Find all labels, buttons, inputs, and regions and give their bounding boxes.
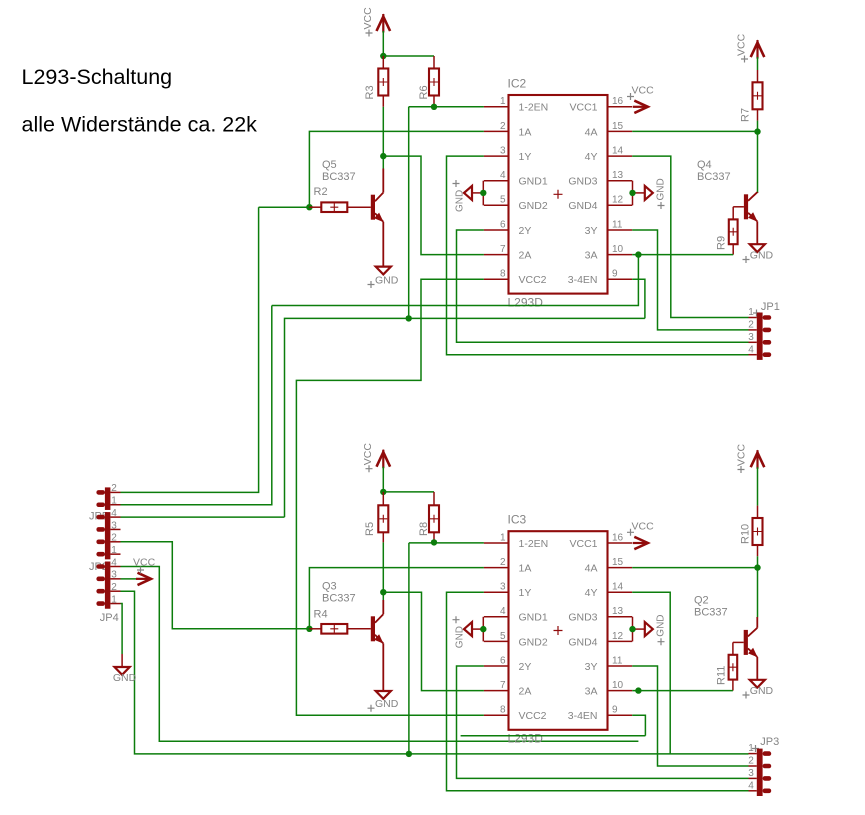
svg-text:11: 11 [612, 219, 623, 230]
svg-text:1: 1 [111, 594, 117, 605]
svg-text:R6: R6 [418, 85, 430, 99]
wire JP4.4 to 3A (IC3) [121, 567, 639, 742]
svg-text:4: 4 [748, 344, 754, 355]
svg-text:3: 3 [500, 582, 506, 593]
svg-text:3: 3 [748, 768, 754, 779]
power flag VCC (JP4.3) [133, 557, 156, 586]
wire [382, 107, 384, 156]
svg-text:1: 1 [111, 496, 117, 507]
wire 3-4EN [632, 279, 645, 318]
svg-text:L293D: L293D [508, 732, 544, 746]
ground (Q4 emitter) [743, 244, 774, 263]
svg-text:1Y: 1Y [519, 587, 532, 599]
wire [272, 255, 639, 306]
svg-text:2: 2 [748, 320, 754, 331]
svg-text:3: 3 [500, 146, 506, 157]
svg-text:12: 12 [612, 195, 624, 206]
resistor R3 [364, 56, 388, 107]
svg-text:VCC: VCC [362, 443, 374, 466]
junction [306, 626, 312, 632]
wire [382, 592, 384, 600]
wire JP2.4 to enable [121, 516, 285, 518]
svg-text:Q2: Q2 [694, 595, 709, 607]
svg-text:L293-Schaltung: L293-Schaltung [22, 65, 173, 89]
transistor Q5 [322, 159, 384, 267]
svg-text:4: 4 [111, 508, 117, 519]
svg-text:5: 5 [500, 631, 506, 642]
junction [380, 589, 386, 595]
svg-text:GND: GND [455, 626, 466, 648]
svg-text:1-2EN: 1-2EN [519, 102, 549, 114]
junction [635, 687, 641, 693]
resistor R4 [309, 609, 370, 634]
svg-text:R7: R7 [739, 108, 751, 122]
svg-text:2: 2 [500, 121, 506, 132]
junction [406, 751, 412, 757]
svg-text:GND3: GND3 [568, 612, 597, 624]
wire [408, 107, 410, 319]
ground bracket IC2 pins 12-13 [629, 178, 666, 209]
wire JP5.2 to R2 node [121, 207, 259, 492]
svg-text:GND: GND [455, 190, 466, 212]
wire 3Y [632, 230, 748, 330]
junction [754, 128, 760, 134]
wire 1Y [447, 592, 749, 791]
svg-text:BC337: BC337 [694, 607, 728, 619]
svg-text:GND: GND [656, 614, 667, 636]
junction [431, 539, 437, 545]
svg-text:GND2: GND2 [519, 200, 548, 212]
svg-text:R3: R3 [364, 85, 376, 99]
wire 4Y [632, 156, 748, 317]
svg-text:GND4: GND4 [568, 636, 597, 648]
svg-text:2: 2 [748, 756, 754, 767]
svg-text:GND4: GND4 [568, 200, 597, 212]
power flag VCC (IC2 pin16) [627, 85, 654, 114]
svg-text:BC337: BC337 [697, 171, 731, 183]
wire [259, 206, 310, 208]
transistor Q4 [697, 159, 758, 244]
svg-text:JP4: JP4 [100, 612, 119, 624]
wire [382, 156, 384, 168]
wire collector to 2A [383, 592, 484, 690]
junction [406, 315, 412, 321]
svg-text:JP1: JP1 [761, 301, 780, 313]
wire [383, 55, 434, 57]
wire [382, 467, 384, 492]
pin header JP5 [96, 483, 120, 510]
svg-text:alle Widerstände ca. 22k: alle Widerstände ca. 22k [22, 113, 258, 137]
svg-text:11: 11 [612, 655, 623, 666]
ground bracket IC3 pins 4-5 [453, 616, 487, 648]
wire 1Y [447, 156, 749, 355]
svg-text:15: 15 [612, 121, 624, 132]
svg-text:3: 3 [748, 332, 754, 343]
power flag VCC (mid right) [736, 444, 765, 473]
resistor R10 [739, 506, 762, 557]
svg-text:L293D: L293D [508, 296, 544, 310]
svg-text:1-2EN: 1-2EN [519, 538, 549, 550]
wire [409, 106, 484, 108]
resistor R2 [309, 186, 370, 212]
svg-text:VCC1: VCC1 [569, 538, 597, 550]
pin header JP4 [96, 557, 120, 608]
svg-text:2: 2 [111, 533, 117, 544]
svg-text:VCC: VCC [736, 444, 748, 467]
svg-text:VCC: VCC [133, 557, 156, 569]
junction [306, 204, 312, 210]
junction [380, 53, 386, 59]
svg-text:JP3: JP3 [760, 736, 779, 748]
svg-text:3Y: 3Y [585, 225, 598, 237]
svg-text:VCC: VCC [632, 85, 655, 97]
power flag VCC (IC3 pin16) [627, 521, 654, 550]
svg-text:R11: R11 [716, 666, 728, 685]
svg-text:1Y: 1Y [519, 151, 532, 163]
svg-text:4: 4 [111, 557, 117, 568]
svg-text:3: 3 [111, 520, 117, 531]
junction [431, 104, 437, 110]
svg-text:VCC2: VCC2 [519, 710, 547, 722]
svg-text:4: 4 [748, 780, 754, 791]
svg-text:IC3: IC3 [508, 513, 527, 527]
wire 3Y [632, 666, 748, 766]
svg-text:BC337: BC337 [322, 171, 356, 183]
wire JP4.2 to enable (IC3) [121, 591, 749, 754]
svg-text:GND: GND [656, 178, 667, 200]
svg-text:4A: 4A [585, 126, 598, 138]
svg-text:1: 1 [748, 743, 754, 754]
svg-text:GND: GND [375, 274, 399, 286]
wire 3A [632, 254, 733, 256]
pin header JP2 [96, 508, 120, 559]
svg-text:1A: 1A [519, 126, 532, 138]
svg-text:VCC: VCC [736, 33, 748, 56]
svg-text:4Y: 4Y [585, 151, 598, 163]
wire [757, 556, 759, 567]
ground bracket IC2 pins 4-5 [453, 180, 487, 212]
svg-text:4: 4 [500, 170, 506, 181]
svg-text:1: 1 [748, 307, 754, 318]
svg-text:7: 7 [500, 680, 506, 691]
svg-text:2A: 2A [519, 686, 532, 698]
wire enable bus [285, 318, 645, 517]
svg-text:IC2: IC2 [508, 77, 527, 91]
wire JP5.1 to 3A [121, 306, 272, 505]
wire collector to 2A [383, 156, 484, 255]
resistor R5 [364, 492, 388, 543]
power flag VCC (mid left) [362, 443, 390, 473]
resistor R6 [418, 56, 439, 107]
wire [382, 31, 384, 56]
wire JP4.3 VCC [121, 578, 138, 580]
svg-text:10: 10 [612, 680, 624, 691]
svg-text:R4: R4 [314, 609, 328, 621]
wire [757, 57, 759, 70]
svg-text:4A: 4A [585, 563, 598, 575]
ground [368, 691, 399, 712]
svg-text:GND1: GND1 [519, 176, 548, 188]
svg-text:Q5: Q5 [322, 159, 337, 171]
junction [380, 153, 386, 159]
resistor R11 [716, 642, 744, 690]
svg-text:4: 4 [500, 606, 506, 617]
svg-text:1: 1 [500, 96, 506, 107]
svg-text:3A: 3A [585, 686, 598, 698]
junction [635, 251, 641, 257]
svg-text:R10: R10 [739, 524, 751, 544]
transistor Q3 [322, 581, 384, 692]
wire [757, 467, 759, 505]
svg-text:5: 5 [500, 195, 506, 206]
svg-text:2: 2 [111, 483, 117, 494]
ground (JP4.1) [0, 0, 137, 684]
svg-text:BC337: BC337 [322, 593, 356, 605]
IC op-amp U IC2 [484, 77, 632, 310]
svg-text:R2: R2 [314, 186, 328, 198]
svg-text:GND: GND [750, 685, 774, 697]
wire [409, 542, 484, 544]
svg-text:15: 15 [612, 557, 624, 568]
wire [382, 542, 384, 592]
svg-text:GND2: GND2 [519, 636, 548, 648]
svg-text:14: 14 [612, 146, 624, 157]
wire 4A [632, 567, 757, 569]
svg-text:3: 3 [111, 570, 117, 581]
power flag VCC (top left) [362, 7, 390, 37]
wire [461, 735, 646, 737]
svg-text:16: 16 [612, 532, 624, 543]
svg-text:9: 9 [612, 269, 618, 280]
wire 2Y [457, 230, 749, 342]
svg-text:3A: 3A [585, 250, 598, 262]
svg-text:6: 6 [500, 219, 506, 230]
svg-text:2: 2 [500, 557, 506, 568]
ground [368, 267, 399, 288]
svg-text:13: 13 [612, 170, 624, 181]
svg-text:3-4EN: 3-4EN [568, 274, 598, 286]
svg-text:1: 1 [111, 545, 117, 556]
svg-text:16: 16 [612, 96, 624, 107]
svg-text:Q4: Q4 [697, 159, 712, 171]
junction [754, 564, 760, 570]
wire 3-4EN [632, 715, 645, 736]
svg-text:13: 13 [612, 606, 624, 617]
wire [757, 121, 759, 132]
wire 4Y [632, 592, 670, 754]
svg-text:4Y: 4Y [585, 587, 598, 599]
power flag VCC (top right) [736, 33, 765, 62]
svg-text:GND3: GND3 [568, 176, 597, 188]
svg-text:1A: 1A [519, 563, 532, 575]
svg-text:R5: R5 [364, 522, 376, 536]
resistor R8 [418, 492, 439, 543]
wire [757, 132, 759, 193]
svg-text:VCC1: VCC1 [569, 102, 597, 114]
svg-text:2A: 2A [519, 250, 532, 262]
svg-text:8: 8 [500, 269, 506, 280]
wire 1A [309, 568, 484, 629]
svg-text:2: 2 [111, 582, 117, 593]
wire 2Y [457, 666, 749, 778]
transistor Q2 [694, 595, 758, 680]
wire [408, 543, 410, 754]
IC op-amp U IC3 [484, 513, 632, 746]
svg-text:3Y: 3Y [585, 661, 598, 673]
ground bracket IC3 pins 12-13 [629, 614, 666, 645]
svg-text:1: 1 [500, 532, 506, 543]
svg-text:GND: GND [113, 672, 137, 684]
svg-text:10: 10 [612, 244, 624, 255]
resistor R9 [716, 207, 744, 255]
wire JP4.1 to ground [121, 604, 123, 654]
svg-text:2Y: 2Y [519, 661, 532, 673]
svg-text:2Y: 2Y [519, 225, 532, 237]
svg-text:12: 12 [612, 631, 624, 642]
svg-text:GND1: GND1 [519, 612, 548, 624]
svg-text:Q3: Q3 [322, 581, 337, 593]
svg-text:GND: GND [375, 698, 399, 710]
svg-text:VCC2: VCC2 [519, 274, 547, 286]
wire 1A [309, 131, 484, 207]
svg-text:VCC: VCC [632, 521, 655, 533]
wire [757, 568, 759, 617]
svg-text:7: 7 [500, 244, 506, 255]
wire VCC2 bus [296, 279, 484, 715]
svg-text:9: 9 [612, 705, 618, 716]
junction [380, 489, 386, 495]
wire JP2.2 to R4 node [121, 542, 310, 629]
svg-text:GND: GND [750, 249, 774, 261]
wire 4A [632, 130, 757, 132]
svg-text:3-4EN: 3-4EN [568, 710, 598, 722]
svg-text:VCC: VCC [362, 7, 374, 30]
ground (Q2 emitter) [743, 680, 774, 699]
wire [383, 491, 434, 493]
wire 3A [632, 690, 733, 692]
svg-text:R9: R9 [716, 236, 728, 250]
svg-text:R8: R8 [418, 522, 430, 536]
svg-text:14: 14 [612, 582, 624, 593]
resistor R7 [739, 70, 762, 122]
svg-text:6: 6 [500, 655, 506, 666]
svg-text:8: 8 [500, 705, 506, 716]
